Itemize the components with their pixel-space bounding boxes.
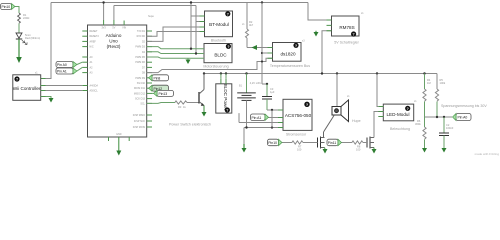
svg-text:RESET: RESET: [90, 30, 99, 33]
svg-text:3V3: 3V3: [101, 27, 106, 30]
svg-text:(Rev3): (Rev3): [107, 44, 121, 49]
svg-text:A5/SCL: A5/SCL: [90, 90, 99, 93]
svg-text:Pin A0: Pin A0: [458, 116, 468, 120]
svg-text:PWM D5: PWM D5: [135, 56, 145, 59]
svg-text:Pin A0: Pin A0: [57, 63, 67, 67]
svg-text:ds1820: ds1820: [280, 52, 296, 57]
svg-text:BT-Modul: BT-Modul: [209, 22, 229, 27]
svg-text:Arduino: Arduino: [106, 33, 122, 38]
svg-text:Bluetooth: Bluetooth: [211, 39, 226, 43]
svg-text:ICSP SCK: ICSP SCK: [134, 120, 146, 123]
svg-text:N/C: N/C: [90, 46, 94, 49]
svg-text:Pin10: Pin10: [268, 141, 277, 145]
svg-text:RESET2: RESET2: [90, 35, 100, 38]
svg-text:Stromsensor: Stromsensor: [286, 133, 307, 137]
svg-text:220Ω: 220Ω: [23, 16, 29, 20]
svg-text:5V Schaltregler: 5V Schaltregler: [334, 41, 359, 45]
svg-text:PWM D9: PWM D9: [135, 77, 145, 80]
svg-text:BLDC Power: BLDC Power: [223, 84, 228, 111]
svg-text:ICSP MISO: ICSP MISO: [133, 114, 145, 117]
svg-text:100: 100: [356, 148, 361, 152]
svg-text:A4/SDA: A4/SDA: [90, 85, 99, 88]
svg-text:Pin10: Pin10: [2, 5, 11, 9]
svg-text:LED-Modul: LED-Modul: [387, 112, 410, 117]
svg-text:RX0 D0: RX0 D0: [137, 35, 146, 38]
svg-text:Uno: Uno: [109, 39, 118, 44]
svg-text:PWM D3: PWM D3: [135, 46, 145, 49]
svg-text:4,2V LiPo: 4,2V LiPo: [250, 81, 262, 85]
svg-text:ACS756-050: ACS756-050: [285, 113, 312, 118]
svg-text:Motorsteuerung: Motorsteuerung: [203, 65, 228, 69]
svg-text:300k: 300k: [415, 122, 421, 126]
svg-text:100k: 100k: [440, 81, 446, 85]
svg-text:1µF: 1µF: [270, 90, 275, 94]
svg-text:Wii Controller: Wii Controller: [13, 86, 41, 91]
svg-text:Pin A1: Pin A1: [57, 70, 67, 74]
svg-text:made with Fritzing: made with Fritzing: [475, 152, 500, 156]
svg-text:Pin13: Pin13: [159, 92, 168, 96]
svg-text:BLDC: BLDC: [214, 53, 227, 58]
svg-text:RM78S: RM78S: [339, 25, 354, 30]
svg-text:GND: GND: [116, 133, 122, 136]
svg-text:Pin11: Pin11: [328, 141, 337, 145]
svg-text:hupe: hupe: [148, 14, 154, 18]
svg-text:AREF: AREF: [90, 40, 97, 43]
svg-text:Red (633nm): Red (633nm): [25, 36, 40, 40]
svg-text:VIN: VIN: [122, 27, 126, 30]
svg-text:SCL: SCL: [140, 102, 145, 105]
svg-text:SS D10: SS D10: [137, 82, 146, 85]
svg-text:SCK D13: SCK D13: [135, 98, 146, 101]
svg-text:Power Switch elektronisch: Power Switch elektronisch: [169, 123, 211, 127]
svg-text:Spannungsmessung bis 30V: Spannungsmessung bis 30V: [441, 104, 487, 108]
svg-text:Beleuchtung: Beleuchtung: [390, 127, 410, 131]
svg-text:Temperatursensoren Bus: Temperatursensoren Bus: [270, 64, 310, 68]
svg-text:MISO D12: MISO D12: [134, 92, 146, 95]
svg-text:R3: R3: [178, 105, 182, 109]
svg-text:Pin8: Pin8: [154, 77, 161, 81]
svg-text:PWM D6: PWM D6: [135, 61, 145, 64]
svg-text:MOSI D11: MOSI D11: [134, 87, 146, 90]
svg-text:1M: 1M: [427, 81, 431, 85]
svg-text:100nF: 100nF: [446, 126, 454, 130]
svg-text:5V: 5V: [112, 27, 115, 30]
svg-text:4k7: 4k7: [249, 23, 254, 27]
svg-text:Pin A1: Pin A1: [252, 116, 262, 120]
svg-text:100: 100: [297, 148, 302, 152]
svg-text:TX0 D1: TX0 D1: [137, 30, 146, 33]
svg-text:ICSP MOSI: ICSP MOSI: [133, 126, 146, 129]
svg-text:Hupe: Hupe: [352, 119, 361, 123]
